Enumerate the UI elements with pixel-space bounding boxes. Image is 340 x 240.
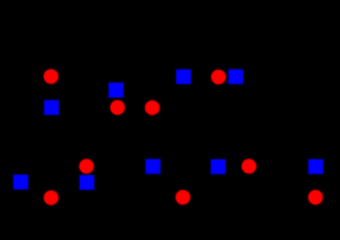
- monosaccharide symbol: blue square 15: [211, 159, 226, 174]
- monosaccharide symbol: blue square 2 (below circle 1): [44, 100, 59, 115]
- monosaccharide symbol: red circle 18 (right stacked pair, bottom): [308, 190, 323, 205]
- monosaccharide symbol: blue square 8 (top row trio, right): [228, 69, 243, 84]
- monosaccharide symbol: blue square 13: [146, 159, 161, 174]
- monosaccharide symbol: red circle 4 (below square 3): [110, 100, 125, 115]
- monosaccharide symbol: red circle 14: [175, 190, 190, 205]
- monosaccharide symbol: red circle 16: [242, 159, 257, 174]
- monosaccharide symbol: red circle 11 (stacked pair, top): [79, 159, 94, 174]
- monosaccharide symbol: blue square 6 (top row trio, left): [176, 69, 191, 84]
- monosaccharide symbol: red circle 10: [44, 190, 59, 205]
- monosaccharide symbol: blue square 9 (bottom-left): [13, 175, 28, 190]
- monosaccharide symbol: blue square 3: [109, 83, 124, 98]
- monosaccharide symbol: red circle 1 (top-left chain): [44, 69, 59, 84]
- monosaccharide symbol: red circle 5: [145, 100, 160, 115]
- monosaccharide symbol: blue square 17 (right stacked pair, top): [308, 159, 323, 174]
- monosaccharide symbol: blue square 12 (stacked pair, bottom): [79, 175, 94, 190]
- monosaccharide symbol: red circle 7 (top row trio, middle): [211, 70, 226, 85]
